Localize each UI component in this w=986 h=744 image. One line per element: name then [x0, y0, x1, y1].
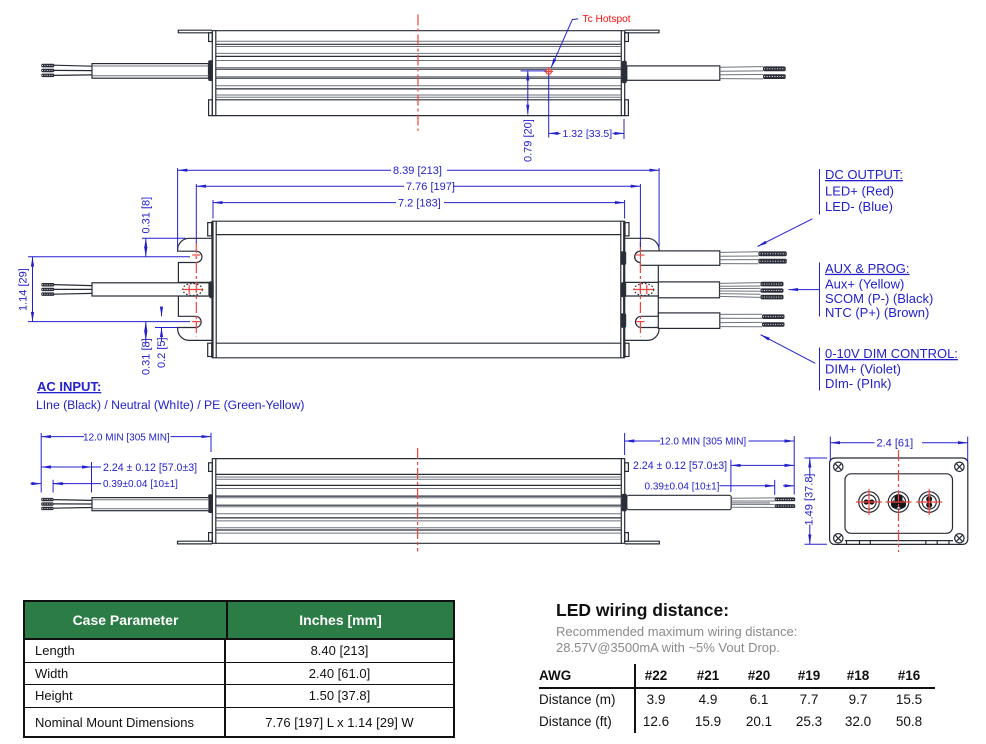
svg-text:0.39±0.04 [10±1]: 0.39±0.04 [10±1] — [645, 481, 720, 492]
middle view: right cable entry hidden hole (dotted ellipse) — [634, 284, 654, 296]
svg-text:0-10V DIM CONTROL:: 0-10V DIM CONTROL: — [825, 346, 958, 361]
end view: outer case — [830, 458, 968, 544]
bottom view: DC wire stripped tips (hatched) — [775, 497, 796, 508]
top view: heatsink fin lines — [216, 41, 622, 100]
end view: inner face plate — [845, 474, 953, 534]
svg-text:LIne (Black) / Neutral (WhIte): LIne (Black) / Neutral (WhIte) / PE (Gre… — [36, 398, 304, 412]
bottom view: bracket tabs — [209, 463, 629, 541]
end view: red centerline — [898, 450, 900, 552]
svg-text:12.0 MIN [305 MIN]: 12.0 MIN [305 MIN] — [83, 432, 170, 443]
svg-text:SCOM (P-) (Black): SCOM (P-) (Black) — [825, 291, 933, 306]
dimension 0.79 [20] (hotspot to bottom) — [521, 71, 547, 162]
top view: DC output gland (dark block) — [622, 61, 627, 83]
svg-text:2.24 ± 0.12 [57.0±3]: 2.24 ± 0.12 [57.0±3] — [633, 460, 727, 472]
svg-text:DIm- (PInk): DIm- (PInk) — [825, 376, 891, 391]
svg-text:2.24 ± 0.12 [57.0±3]: 2.24 ± 0.12 [57.0±3] — [103, 462, 197, 474]
middle view: AC input cable (left) — [41, 283, 209, 296]
bottom view: heatsink body outline — [212, 458, 625, 544]
bottom view: AC input cable sheath — [92, 498, 209, 511]
svg-text:7.2 [183]: 7.2 [183] — [398, 198, 441, 210]
svg-text:12.0 MIN [305 MIN]: 12.0 MIN [305 MIN] — [660, 437, 747, 448]
svg-text:AUX & PROG:: AUX & PROG: — [825, 261, 910, 276]
svg-text:0.31 [8]: 0.31 [8] — [140, 338, 152, 375]
leader arrow: AUX — [789, 289, 820, 291]
middle view: corner tabs — [208, 223, 629, 357]
dimension 8.39 [213] overall length — [178, 165, 659, 250]
dimension 7.76 [197] slot spacing — [196, 181, 640, 247]
svg-text:0.39±0.04 [10±1]: 0.39±0.04 [10±1] — [103, 479, 178, 490]
dimension 0.2 [5] slot width — [155, 308, 178, 369]
top view: right mounting flange (edge-on) — [625, 30, 659, 33]
top view: left lower bracket tab — [209, 100, 213, 116]
top view: Tc hotspot mark — [544, 67, 553, 76]
svg-text:7.76 [197]: 7.76 [197] — [406, 181, 455, 193]
middle view: DC output cable (top right, through slot) — [635, 251, 787, 265]
end view: connector 1 (left, 2-pin) — [856, 489, 882, 515]
case parameter table — [23, 600, 455, 738]
LED wiring distance block — [539, 600, 979, 733]
middle view: left cable gland (dark block) — [209, 281, 213, 298]
bottom view: DC output cable sheath — [627, 495, 731, 509]
svg-text:0.31 [8]: 0.31 [8] — [140, 197, 152, 234]
svg-text:0.2 [5]: 0.2 [5] — [156, 337, 168, 368]
top view: AC cable gland (dark block) — [208, 60, 213, 81]
svg-text:LED- (Blue): LED- (Blue) — [825, 199, 893, 214]
dimension 2.4 [61] — [830, 437, 967, 462]
leader: Tc hotspot callout — [551, 19, 578, 68]
dimension 0.39 +/- 0.04 (right) — [645, 480, 795, 495]
dimension 1.49 [37.8] — [804, 458, 828, 544]
middle view: AUX cable (middle right) — [658, 282, 783, 300]
dimension 0.31 [8] top slot offset — [140, 197, 186, 257]
dimension 0.39 +/- 0.04 (left) — [31, 479, 179, 492]
top view: AC wire stripped tips (hatched) — [41, 64, 54, 77]
dimension 12.0 MIN [305 MIN] (left) — [41, 432, 211, 492]
svg-text:1.14 [29]: 1.14 [29] — [18, 268, 30, 311]
svg-text:LED+ (Red): LED+ (Red) — [825, 184, 894, 199]
leader arrow: DC output — [758, 219, 813, 247]
dimension 12.0 MIN [305 MIN] (right) — [625, 433, 795, 495]
bottom view: AC wires (3) — [53, 500, 92, 509]
svg-text:1.49 [37.8]: 1.49 [37.8] — [804, 474, 816, 526]
svg-text:8.39 [213]: 8.39 [213] — [393, 165, 442, 177]
top view: left bracket tab — [209, 33, 213, 42]
dimension 7.2 [183] body length — [213, 198, 625, 219]
middle view: DIM cable (bottom right) — [658, 313, 784, 329]
svg-text:DC OUTPUT:: DC OUTPUT: — [825, 167, 903, 182]
svg-text:NTC (P+) (Brown): NTC (P+) (Brown) — [825, 305, 929, 320]
dimension 0.31 [8] bottom slot offset — [140, 322, 152, 375]
end view: bottom flange edge with ticks — [845, 541, 953, 545]
svg-text:1.32 [33.5]: 1.32 [33.5] — [563, 128, 613, 140]
svg-text:Tc Hotspot: Tc Hotspot — [583, 14, 631, 25]
bottom view: AC wire stripped tips (hatched) — [41, 498, 53, 510]
top view: AC wires (3) — [54, 65, 92, 75]
svg-text:0.79 [20]: 0.79 [20] — [523, 119, 535, 162]
bottom view: DC output wires — [731, 498, 775, 508]
top view: right bracket tab — [625, 33, 629, 42]
top view: right lower bracket tab — [625, 100, 629, 116]
middle view: left mounting bracket with keyhole slots — [178, 238, 212, 340]
svg-text:2.4 [61]: 2.4 [61] — [877, 438, 914, 450]
middle view: right bracket red center marks — [633, 242, 654, 337]
top view: DC wire stripped tips (hatched) — [763, 66, 786, 79]
label block: AUX & PROG — [820, 261, 934, 320]
svg-text:AC INPUT:: AC INPUT: — [37, 379, 101, 394]
label block: DC OUTPUT — [820, 167, 904, 215]
svg-text:Aux+ (Yellow): Aux+ (Yellow) — [825, 276, 904, 291]
bottom view: AC cable gland (dark block) — [208, 494, 213, 513]
end view: connector 3 (right, 2-pin vertical) — [916, 489, 942, 515]
end view: corner screws — [834, 462, 965, 543]
top view: left mounting flange (edge-on) — [178, 30, 212, 33]
dimension 1.32 [33.5] (hotspot to right end) — [549, 75, 624, 140]
dimension 2.24 +/- 0.12 (right) — [633, 460, 794, 492]
middle view: case body — [212, 221, 625, 358]
svg-text:DIM+ (Violet): DIM+ (Violet) — [825, 362, 901, 377]
top view: DC output wires (2, double outline) — [720, 67, 763, 79]
middle view: left cable entry hidden hole (dotted ellipse) — [183, 284, 203, 296]
bottom view: left mounting flange (edge-on) — [178, 541, 213, 544]
label block: 0-10V DIM CONTROL — [820, 346, 958, 391]
dimension 1.14 [29] slot to slot — [18, 257, 191, 322]
dimension 2.24 +/- 0.12 (left) — [41, 462, 197, 493]
middle view: right cable glands (dark blocks) — [621, 251, 626, 328]
bottom view: right mounting flange (edge-on) — [625, 541, 659, 544]
bottom view: red centerline — [417, 448, 419, 552]
end view: connector 2 (middle, 3-pin) — [886, 492, 912, 513]
top view: AC input cable sheath — [92, 64, 209, 79]
top view: heatsink body outline — [212, 30, 625, 116]
leader arrow: DIM — [761, 335, 816, 364]
middle view: left bracket red center marks — [183, 242, 204, 337]
bottom view: heatsink fin lines — [216, 474, 622, 533]
bottom view: DC output gland (dark block) — [622, 494, 627, 512]
middle view: right mounting bracket with keyhole slots — [625, 238, 659, 340]
top view: red centerline — [417, 15, 419, 132]
top view: DC output cable sheath — [627, 66, 720, 80]
